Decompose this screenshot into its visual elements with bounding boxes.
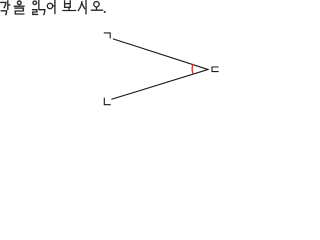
title text: 시 — [78, 1, 86, 14]
ray from vertex to bottom-left point — [112, 70, 208, 100]
title text: 읽 — [33, 1, 45, 15]
ray from vertex to top-left point — [114, 39, 209, 70]
title text: 어 — [47, 1, 55, 14]
point label giyeok (top left) — [104, 33, 110, 38]
angle figure — [104, 33, 218, 105]
title text: 을 — [14, 1, 24, 14]
title text: 오 — [91, 2, 102, 11]
title text: 각 — [1, 1, 10, 15]
point label digeut (right, vertex) — [212, 67, 218, 72]
title text: 보 — [63, 1, 76, 11]
point label nieun (bottom left) — [104, 98, 110, 105]
red angle arc at vertex — [191, 64, 194, 73]
title text: period — [104, 11, 106, 13]
